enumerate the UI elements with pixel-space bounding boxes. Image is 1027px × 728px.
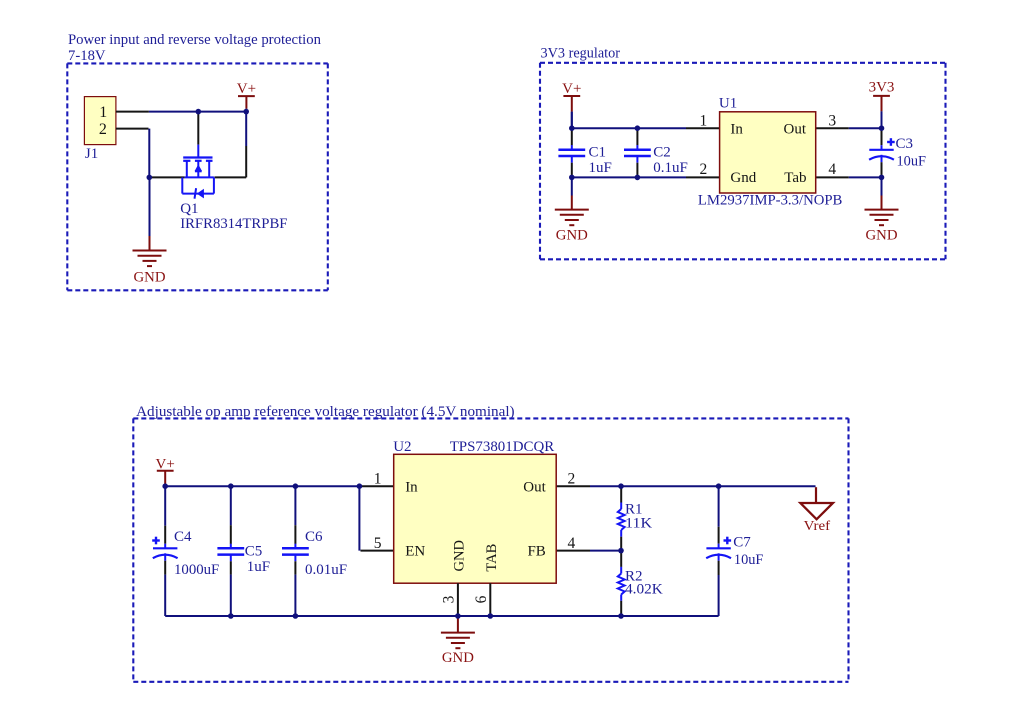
svg-text:1: 1 (700, 113, 708, 130)
svg-text:Power input and reverse voltag: Power input and reverse voltage protecti… (68, 32, 321, 48)
svg-text:4: 4 (568, 535, 576, 552)
svg-text:Gnd: Gnd (730, 170, 756, 186)
svg-text:GND: GND (134, 270, 166, 286)
svg-text:LM2937IMP-3.3/NOPB: LM2937IMP-3.3/NOPB (698, 193, 843, 209)
svg-text:C7: C7 (733, 534, 751, 550)
svg-text:0.1uF: 0.1uF (653, 160, 688, 176)
svg-text:2: 2 (700, 161, 708, 178)
svg-text:GND: GND (556, 227, 588, 243)
svg-text:1uF: 1uF (589, 160, 612, 176)
svg-text:0.01uF: 0.01uF (305, 562, 347, 578)
svg-text:U2: U2 (393, 439, 411, 455)
svg-text:4.02K: 4.02K (625, 581, 663, 597)
svg-text:C2: C2 (653, 144, 671, 160)
svg-text:7-18V: 7-18V (68, 48, 106, 64)
svg-text:TPS73801DCQR: TPS73801DCQR (450, 439, 555, 455)
svg-text:10uF: 10uF (897, 153, 927, 169)
svg-text:Out: Out (784, 121, 807, 137)
svg-text:Tab: Tab (784, 170, 806, 186)
svg-text:Q1: Q1 (180, 201, 198, 217)
svg-text:3V3 regulator: 3V3 regulator (541, 46, 621, 62)
svg-text:IRFR8314TRPBF: IRFR8314TRPBF (180, 216, 287, 232)
svg-text:V+: V+ (562, 81, 581, 97)
svg-text:6: 6 (473, 595, 490, 603)
svg-text:1: 1 (99, 104, 107, 121)
svg-text:C3: C3 (896, 136, 914, 152)
svg-text:TAB: TAB (484, 544, 500, 572)
svg-text:3: 3 (828, 113, 836, 130)
svg-text:GND: GND (866, 227, 898, 243)
svg-text:3: 3 (440, 595, 457, 603)
svg-text:EN: EN (405, 544, 425, 560)
svg-text:J1: J1 (85, 146, 98, 162)
svg-text:4: 4 (828, 161, 836, 178)
svg-text:11K: 11K (625, 516, 652, 532)
svg-text:U1: U1 (719, 95, 737, 111)
svg-text:Vref: Vref (804, 518, 831, 533)
svg-text:C6: C6 (305, 529, 323, 545)
svg-text:5: 5 (374, 535, 382, 552)
svg-text:FB: FB (527, 544, 545, 560)
svg-text:2: 2 (568, 471, 576, 488)
svg-text:In: In (405, 479, 418, 495)
svg-text:3V3: 3V3 (869, 79, 895, 95)
svg-text:V+: V+ (237, 81, 256, 97)
svg-text:C4: C4 (174, 529, 192, 545)
svg-text:GND: GND (442, 650, 474, 666)
svg-text:Out: Out (523, 479, 546, 495)
svg-text:1000uF: 1000uF (174, 562, 219, 578)
svg-text:10uF: 10uF (734, 552, 764, 568)
svg-text:1uF: 1uF (247, 559, 270, 575)
svg-text:C1: C1 (589, 144, 607, 160)
svg-text:1: 1 (374, 471, 382, 488)
svg-text:C5: C5 (245, 543, 263, 559)
svg-text:2: 2 (99, 121, 107, 138)
svg-text:In: In (730, 121, 743, 137)
svg-text:GND: GND (452, 540, 468, 572)
